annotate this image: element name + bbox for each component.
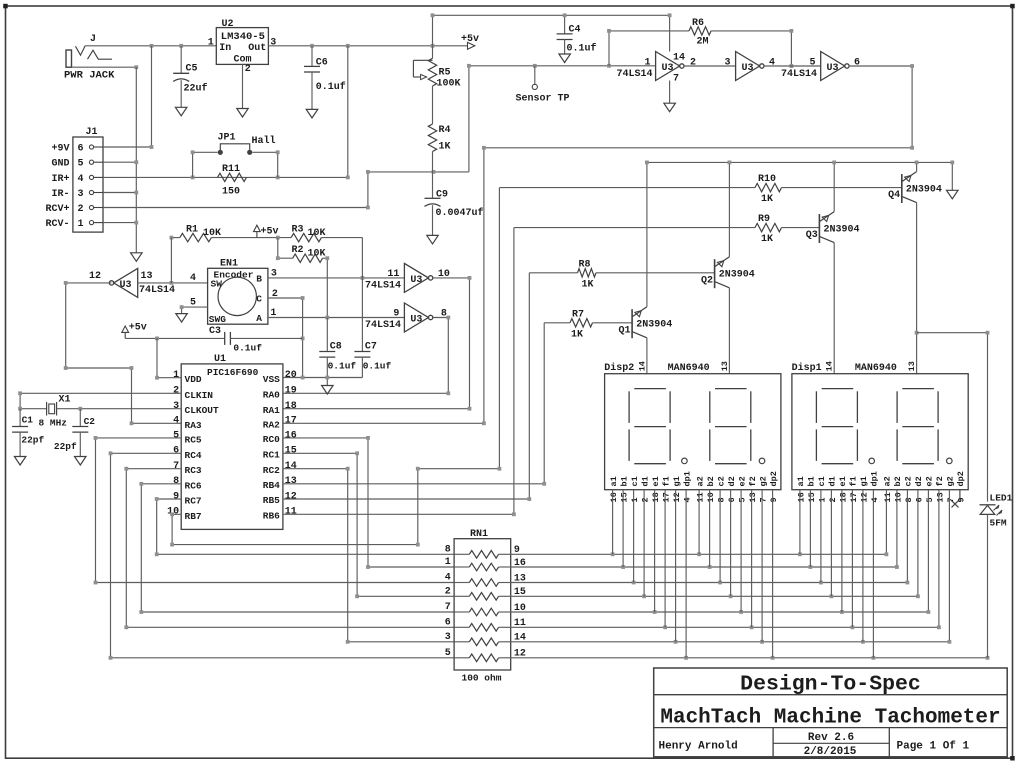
svg-text:16: 16 <box>609 492 619 502</box>
svg-text:15: 15 <box>285 446 297 457</box>
svg-text:g2: g2 <box>946 476 956 486</box>
svg-text:2: 2 <box>828 497 838 502</box>
svg-text:17: 17 <box>662 492 672 502</box>
svg-text:C8: C8 <box>330 342 342 353</box>
svg-text:g1: g1 <box>859 476 869 486</box>
svg-text:e1: e1 <box>838 476 848 486</box>
svg-text:74LS14: 74LS14 <box>617 69 653 80</box>
svg-text:GND: GND <box>51 159 69 170</box>
svg-text:RCV-: RCV- <box>45 219 69 230</box>
svg-text:J1: J1 <box>86 127 98 138</box>
wire Q1 collector to Disp2 pin14 <box>646 338 648 374</box>
svg-text:2N3904: 2N3904 <box>636 320 672 331</box>
svg-text:dp1: dp1 <box>870 471 880 486</box>
svg-text:2N3904: 2N3904 <box>824 224 860 235</box>
svg-text:RC7: RC7 <box>185 496 202 507</box>
wire encoder SWG to ground <box>182 307 208 314</box>
svg-text:17: 17 <box>285 416 297 427</box>
svg-text:RC3: RC3 <box>185 465 202 476</box>
svg-text:C7: C7 <box>365 342 377 353</box>
svg-text:Disp2: Disp2 <box>604 362 634 374</box>
wire emitter rail <box>647 162 952 190</box>
svg-text:10K: 10K <box>308 228 326 239</box>
wire RCV+ J1 pin2 jog to sensor divider <box>103 172 469 208</box>
capacitor C9 0.0047uf <box>432 172 434 198</box>
svg-text:1: 1 <box>78 219 84 230</box>
wire Q2 emitter riser <box>728 162 730 256</box>
power +5v at R1/R3 row <box>256 232 258 238</box>
wire RB4 to R7 <box>283 323 544 484</box>
svg-text:RC2: RC2 <box>263 465 280 476</box>
wire jack sleeve to ground bus <box>72 66 137 68</box>
jumper JP1 Hall <box>193 152 218 177</box>
svg-text:C9: C9 <box>436 190 448 201</box>
svg-text:22pf: 22pf <box>54 441 77 452</box>
svg-text:C1: C1 <box>22 414 34 425</box>
svg-text:5: 5 <box>738 497 748 502</box>
svg-text:0.1uf: 0.1uf <box>328 361 357 372</box>
svg-text:100 ohm: 100 ohm <box>462 673 502 684</box>
svg-text:1K: 1K <box>571 329 583 340</box>
svg-text:12: 12 <box>859 492 869 502</box>
wire VSS row <box>283 377 363 379</box>
capacitor C1 22pf <box>19 409 21 427</box>
wire VDD stub <box>157 338 181 377</box>
ground C9 <box>427 235 438 244</box>
wire Q1 emitter riser <box>646 162 648 306</box>
svg-text:c2: c2 <box>716 476 726 486</box>
inverter U3D 74LS14 pins 11-10 <box>404 263 428 292</box>
encoder EN1 <box>208 268 268 324</box>
svg-text:9: 9 <box>173 491 179 502</box>
svg-text:C6: C6 <box>316 58 328 69</box>
no-connect x at Disp1 dp2 <box>959 490 961 501</box>
svg-text:RA3: RA3 <box>185 420 202 431</box>
svg-text:dp2: dp2 <box>956 471 966 486</box>
ground encoder SWG <box>176 314 188 323</box>
svg-text:Sensor TP: Sensor TP <box>516 94 570 105</box>
svg-text:22uf: 22uf <box>184 83 208 95</box>
svg-text:2/8/2015: 2/8/2015 <box>804 746 857 758</box>
svg-text:X1: X1 <box>59 394 71 405</box>
svg-text:14: 14 <box>285 461 297 472</box>
svg-text:R8: R8 <box>579 259 591 270</box>
svg-text:RC5: RC5 <box>185 434 202 445</box>
svg-text:14: 14 <box>637 361 647 371</box>
svg-text:Out: Out <box>248 43 266 54</box>
led LED1 5FM <box>980 504 996 506</box>
svg-text:8: 8 <box>445 544 451 555</box>
svg-text:13: 13 <box>285 476 297 487</box>
svg-text:Q3: Q3 <box>806 230 818 241</box>
svg-text:5: 5 <box>445 648 451 659</box>
svg-text:74LS14: 74LS14 <box>139 285 175 296</box>
capacitor C2 22pf <box>79 409 81 427</box>
resistor R7 1K <box>570 319 593 327</box>
svg-text:2: 2 <box>641 497 651 502</box>
resistor R10 1K <box>499 187 755 189</box>
wire inverter 10 output to RA1 <box>283 278 470 409</box>
svg-text:3: 3 <box>173 401 179 412</box>
svg-text:Hall: Hall <box>252 135 276 147</box>
svg-text:dp2: dp2 <box>769 471 779 486</box>
svg-text:1: 1 <box>173 370 179 381</box>
svg-text:15: 15 <box>620 492 630 502</box>
wire encoder B to inverter input 11 <box>268 277 405 279</box>
ground J1 bus <box>131 253 143 261</box>
svg-text:R4: R4 <box>439 125 451 136</box>
svg-text:R7: R7 <box>572 309 584 320</box>
svg-text:A: A <box>256 313 262 324</box>
ground C8 at VSS row <box>326 378 328 386</box>
wire jack tip to U2 In <box>85 45 216 47</box>
wire RC0 to RN1 pin1 <box>283 438 454 567</box>
svg-text:CLKOUT: CLKOUT <box>185 405 220 416</box>
svg-text:B: B <box>256 273 262 284</box>
svg-text:R6: R6 <box>692 18 704 29</box>
svg-text:5: 5 <box>809 57 815 68</box>
svg-text:1K: 1K <box>761 194 773 205</box>
wire U3F input 13 to encoder SW <box>138 282 208 284</box>
svg-text:SW: SW <box>211 279 223 290</box>
svg-text:+5v: +5v <box>461 34 479 45</box>
svg-text:MAN6940: MAN6940 <box>855 363 897 374</box>
svg-text:22pf: 22pf <box>21 434 44 445</box>
wire LED1 to dp row <box>987 514 989 657</box>
resistor R2 10K <box>278 238 293 259</box>
wire RC1 to RN1 pin2 <box>283 453 454 596</box>
inverter U3F 74LS14 pins 13-12 facing left <box>114 268 138 297</box>
svg-text:PIC16F690: PIC16F690 <box>207 367 259 378</box>
svg-text:g2: g2 <box>758 476 768 486</box>
svg-text:1K: 1K <box>582 279 594 290</box>
svg-text:100K: 100K <box>437 79 461 90</box>
capacitor C4 0.1uf <box>564 15 566 34</box>
svg-text:18: 18 <box>285 401 297 412</box>
svg-text:4: 4 <box>173 416 179 427</box>
svg-text:2: 2 <box>78 204 84 215</box>
wire +5v top rail <box>433 15 670 51</box>
ground emitter rail <box>947 190 959 199</box>
svg-text:c1: c1 <box>630 476 640 486</box>
crystal X1 8 MHz <box>20 393 181 408</box>
wire RC3 to RN1 pin6 <box>126 469 454 628</box>
svg-text:20: 20 <box>285 370 297 381</box>
inverter U3A 74LS14 pins 1-2 <box>656 52 680 81</box>
svg-text:2: 2 <box>173 386 179 397</box>
svg-text:b1: b1 <box>807 476 817 486</box>
wire U3A out to U3B <box>684 65 736 67</box>
capacitor C3 0.1uf <box>125 337 225 339</box>
svg-text:1K: 1K <box>761 234 773 245</box>
svg-text:1: 1 <box>445 557 451 568</box>
connector J power jack <box>66 50 72 67</box>
svg-text:U1: U1 <box>214 354 226 365</box>
inverter U3E 74LS14 pins 9-8 <box>404 303 428 332</box>
svg-text:C: C <box>256 293 262 304</box>
svg-text:4: 4 <box>78 174 84 185</box>
svg-text:74LS14: 74LS14 <box>365 320 401 331</box>
svg-text:13: 13 <box>720 361 730 371</box>
svg-text:14: 14 <box>825 361 835 371</box>
svg-text:a1: a1 <box>796 476 806 486</box>
ground C5 <box>175 107 187 116</box>
svg-text:7: 7 <box>173 461 179 472</box>
svg-text:0.1uf: 0.1uf <box>233 343 262 354</box>
svg-text:+9V: +9V <box>51 144 69 155</box>
svg-text:16: 16 <box>796 492 806 502</box>
wire RC2 to RN1 pin3 <box>283 469 454 642</box>
wire J1 pin5 to ground bus <box>103 161 136 163</box>
svg-text:6: 6 <box>78 144 84 155</box>
svg-text:C2: C2 <box>84 416 96 427</box>
svg-text:VDD: VDD <box>185 374 202 385</box>
wire RB5 to R8 <box>283 273 529 499</box>
svg-text:16: 16 <box>285 430 297 441</box>
svg-text:1: 1 <box>644 57 650 68</box>
power +5v arrow VDD <box>124 332 126 338</box>
svg-text:d1: d1 <box>828 476 838 486</box>
resistor R9 1K <box>514 227 755 229</box>
svg-text:J: J <box>90 34 96 45</box>
capacitor C7 0.1uf <box>361 238 363 352</box>
svg-text:RA2: RA2 <box>263 420 280 431</box>
svg-text:19: 19 <box>285 386 297 397</box>
ground U2 <box>237 109 248 118</box>
connector J1 <box>73 137 103 232</box>
svg-text:C3: C3 <box>209 326 221 337</box>
wire Q2 collector to Disp2 pin13 <box>728 288 730 374</box>
svg-text:10: 10 <box>706 492 716 502</box>
title block <box>654 668 1008 757</box>
svg-text:12: 12 <box>285 491 297 502</box>
svg-text:RA1: RA1 <box>263 405 280 416</box>
resistor R1 10K <box>171 237 179 239</box>
svg-text:14: 14 <box>673 53 685 64</box>
svg-text:1: 1 <box>208 37 214 48</box>
svg-text:R1: R1 <box>186 225 198 236</box>
svg-text:C4: C4 <box>569 25 581 36</box>
resistor R6 2M feedback <box>609 31 689 66</box>
svg-text:4: 4 <box>870 497 880 502</box>
svg-text:f1: f1 <box>661 476 671 486</box>
wire inverter 8 output to RA0 <box>283 318 448 394</box>
svg-text:2: 2 <box>245 64 251 75</box>
svg-text:11: 11 <box>285 507 297 518</box>
svg-text:Q1: Q1 <box>618 325 630 336</box>
ground C2 <box>75 457 87 466</box>
svg-text:R2: R2 <box>292 245 304 256</box>
capacitor C5 22uf <box>180 46 182 74</box>
svg-text:7: 7 <box>946 497 956 502</box>
transistor Q4 2N3904 <box>901 174 903 203</box>
svg-text:PWR JACK: PWR JACK <box>64 70 115 82</box>
wire segment net rows from RN1 to displays <box>511 490 887 555</box>
display Disp2 MAN6940 <box>605 374 781 490</box>
resistor R11 150 <box>218 173 247 181</box>
ground U3A pin7 <box>664 103 676 112</box>
svg-text:IR-: IR- <box>51 189 69 200</box>
inverter U3C 74LS14 pins 5-6 <box>821 52 845 81</box>
svg-text:Design-To-Spec: Design-To-Spec <box>740 672 921 696</box>
wire U3F output 12 to RA3 <box>66 283 182 423</box>
svg-text:6: 6 <box>727 497 737 502</box>
svg-text:10K: 10K <box>308 249 326 260</box>
wire U2 Out to +5v <box>268 45 467 47</box>
svg-text:18: 18 <box>838 492 848 502</box>
svg-text:11: 11 <box>387 269 399 280</box>
svg-text:Disp1: Disp1 <box>792 362 822 374</box>
svg-text:9: 9 <box>769 497 779 502</box>
svg-text:d2: d2 <box>914 476 924 486</box>
svg-text:5FM: 5FM <box>990 517 1007 528</box>
wire RB7 to R10 jog <box>172 188 499 545</box>
svg-text:U3: U3 <box>662 63 674 74</box>
svg-text:2M: 2M <box>697 37 709 48</box>
svg-text:3: 3 <box>724 57 730 68</box>
svg-text:150: 150 <box>222 187 240 198</box>
svg-text:4: 4 <box>683 497 693 502</box>
svg-text:LED1: LED1 <box>990 493 1013 504</box>
svg-text:9: 9 <box>393 309 399 320</box>
svg-text:CLKIN: CLKIN <box>185 390 214 401</box>
svg-text:6: 6 <box>173 446 179 457</box>
wire RC6 to RN1 pin7 <box>141 484 454 612</box>
svg-text:RB7: RB7 <box>185 511 202 522</box>
svg-text:15: 15 <box>807 492 817 502</box>
svg-text:4: 4 <box>190 273 196 284</box>
svg-text:7: 7 <box>673 74 679 85</box>
svg-text:5: 5 <box>78 159 84 170</box>
svg-text:b2: b2 <box>893 476 903 486</box>
wire Q4 emitter riser <box>916 162 918 171</box>
resistor network RN1 100 ohm <box>454 539 511 670</box>
svg-text:RB6: RB6 <box>263 511 280 522</box>
svg-text:IR+: IR+ <box>51 174 69 185</box>
ground C4 <box>559 54 571 63</box>
potentiometer R5 100K <box>432 46 434 59</box>
transistor Q3 2N3904 <box>818 214 820 243</box>
svg-text:6: 6 <box>445 617 451 628</box>
svg-text:8 MHz: 8 MHz <box>39 417 68 428</box>
svg-text:U3: U3 <box>120 280 132 291</box>
svg-text:10: 10 <box>893 492 903 502</box>
svg-text:RC0: RC0 <box>263 434 280 445</box>
svg-text:2N3904: 2N3904 <box>906 184 942 195</box>
svg-text:4: 4 <box>769 57 775 68</box>
svg-text:U3: U3 <box>410 275 422 286</box>
svg-text:2N3904: 2N3904 <box>719 270 755 281</box>
svg-text:a2: a2 <box>883 476 893 486</box>
ground C6 <box>306 109 318 118</box>
svg-text:74LS14: 74LS14 <box>365 281 401 292</box>
wire U2 Com to ground <box>242 64 244 108</box>
svg-text:13: 13 <box>748 492 758 502</box>
svg-text:0.1uf: 0.1uf <box>567 43 597 55</box>
wire RC5 to RN1 pin4 <box>96 438 455 583</box>
svg-text:5: 5 <box>173 430 179 441</box>
power +5v arrow at regulator output <box>468 42 475 49</box>
svg-text:U3: U3 <box>410 315 422 326</box>
svg-text:R11: R11 <box>222 164 240 175</box>
svg-text:Q2: Q2 <box>701 275 713 286</box>
svg-text:U3: U3 <box>827 63 839 74</box>
svg-text:13: 13 <box>935 492 945 502</box>
svg-text:c1: c1 <box>817 476 827 486</box>
svg-text:MAN6940: MAN6940 <box>668 363 710 374</box>
svg-text:0.0047uf: 0.0047uf <box>436 207 484 219</box>
svg-text:RC6: RC6 <box>185 480 202 491</box>
svg-text:a1: a1 <box>609 476 619 486</box>
svg-text:R5: R5 <box>439 68 451 79</box>
resistor R8 1K <box>529 272 577 274</box>
svg-text:EN1: EN1 <box>220 258 238 269</box>
regulator U2 LM340-5 <box>216 28 268 65</box>
svg-text:SWG: SWG <box>209 314 226 325</box>
svg-text:8: 8 <box>173 476 179 487</box>
capacitor C6 0.1uf <box>311 46 313 67</box>
svg-text:JP1: JP1 <box>218 133 236 144</box>
wire RC4 to RN1 pin5 <box>111 453 455 658</box>
ground bus wire <box>135 67 137 253</box>
display Disp1 MAN6940 <box>792 374 968 490</box>
svg-text:7: 7 <box>759 497 769 502</box>
svg-text:13: 13 <box>141 271 153 282</box>
wire R4 to RCV+ row <box>432 152 434 172</box>
svg-text:0.1uf: 0.1uf <box>316 81 346 93</box>
wire RB6 to R9 <box>283 228 514 515</box>
svg-text:1K: 1K <box>439 142 451 153</box>
svg-text:1: 1 <box>817 497 827 502</box>
svg-text:12: 12 <box>89 271 101 282</box>
svg-text:+5v: +5v <box>261 227 279 238</box>
svg-text:dp1: dp1 <box>682 471 692 486</box>
svg-text:RB4: RB4 <box>263 480 280 491</box>
svg-text:b1: b1 <box>619 476 629 486</box>
svg-text:MachTach Machine Tachometer: MachTach Machine Tachometer <box>660 707 1000 730</box>
wire J1 pin3 to ground bus <box>103 192 136 194</box>
wire encoder C to ground riser <box>268 298 303 378</box>
svg-text:VSS: VSS <box>263 374 280 385</box>
wire sensor node to gate U3A input <box>469 66 656 172</box>
svg-text:b2: b2 <box>706 476 716 486</box>
svg-text:RB5: RB5 <box>263 495 280 506</box>
svg-text:+5v: +5v <box>129 323 147 334</box>
svg-text:13: 13 <box>907 361 917 371</box>
wire IR+ J1 pin4 to R11 row <box>103 46 348 178</box>
svg-text:Page 1 Of 1: Page 1 Of 1 <box>897 741 970 753</box>
svg-text:In: In <box>219 43 231 54</box>
svg-text:RCV+: RCV+ <box>45 204 69 215</box>
microcontroller U1 PIC16F690 <box>181 364 283 530</box>
wire U3C output 6 to RA2 riser <box>283 66 912 423</box>
wire U3B out to U3C <box>764 65 821 67</box>
svg-text:e2: e2 <box>737 476 747 486</box>
svg-text:6: 6 <box>854 57 860 68</box>
testpoint Sensor TP <box>534 66 536 85</box>
svg-text:7: 7 <box>445 602 451 613</box>
svg-text:RN1: RN1 <box>470 529 488 540</box>
wire U3A pin7 to ground <box>669 81 671 104</box>
svg-text:0.1uf: 0.1uf <box>363 361 392 372</box>
svg-text:c2: c2 <box>904 476 914 486</box>
svg-text:1: 1 <box>630 497 640 502</box>
svg-text:Q4: Q4 <box>888 190 900 201</box>
transistor Q1 2N3904 <box>631 309 633 338</box>
resistor R3 10K <box>291 233 321 241</box>
inverter U3B 74LS14 pins 3-4 <box>736 52 760 81</box>
svg-text:f2: f2 <box>935 476 945 486</box>
